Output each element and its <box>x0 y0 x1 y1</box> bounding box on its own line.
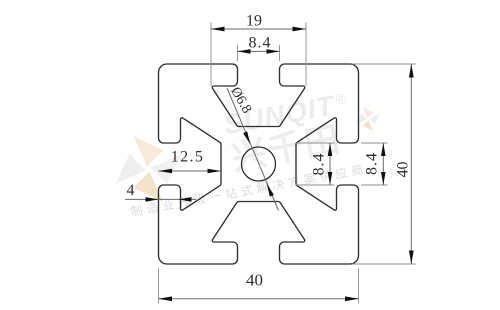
dim 12.5 <box>159 149 222 174</box>
svg-text:40: 40 <box>395 162 412 178</box>
center hole <box>242 147 276 181</box>
dim 8.4 opening <box>361 143 388 185</box>
svg-text:®: ® <box>334 90 348 108</box>
svg-text:40: 40 <box>246 271 263 290</box>
svg-text:12.5: 12.5 <box>171 149 205 166</box>
dim 8.4 inner <box>296 143 335 185</box>
dim 40 bottom <box>159 268 359 303</box>
svg-text:8.4: 8.4 <box>249 35 272 52</box>
svg-text:8.4: 8.4 <box>311 153 328 176</box>
dim 4 <box>125 182 196 202</box>
svg-text:19: 19 <box>246 13 262 30</box>
dim 8.4 top <box>238 35 280 62</box>
watermark group <box>97 81 393 222</box>
svg-text:8.4: 8.4 <box>364 152 381 175</box>
profile outline <box>159 64 359 264</box>
svg-text:4: 4 <box>127 182 135 199</box>
watermark small pinwheel <box>351 102 385 136</box>
dim 19 <box>211 13 306 87</box>
dim dia6.8 leader <box>227 85 279 211</box>
dim 40 right <box>352 64 416 264</box>
watermark logo pinwheel <box>101 121 196 216</box>
